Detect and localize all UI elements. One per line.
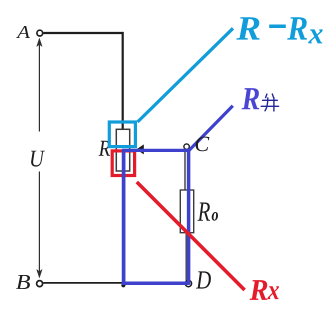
label U — [31, 151, 45, 167]
node A label — [16, 26, 30, 38]
cyan highlight box (upper part of R) — [109, 122, 135, 147]
label R - Rx (cyan) — [236, 17, 259, 39]
red highlight box (lower part of R) — [112, 151, 134, 176]
node C label — [196, 137, 210, 152]
black wire C to R0 — [184, 148, 186, 190]
terminal A circle — [37, 30, 43, 36]
wire from B to junction — [43, 282, 122, 284]
node B label — [16, 275, 30, 289]
blue wire: bottom horizontal to D — [122, 281, 189, 285]
cyan diagonal pointer to R-Rx label — [138, 28, 234, 122]
并 character drawn as strokes — [261, 94, 278, 111]
label Rx (red) — [250, 280, 268, 300]
blue wire: wiper junction to C (horizontal) — [122, 149, 189, 152]
wiper arrowhead (black, under blue wire) — [136, 144, 143, 154]
black wire R0 to D — [185, 233, 187, 281]
wire from terminal A to top-right corner — [43, 32, 122, 34]
red diagonal pointer to Rx label — [137, 182, 245, 290]
blue wire: C down to D (vertical) — [187, 149, 191, 285]
node D label — [196, 271, 211, 288]
resistor R0 body — [180, 190, 193, 233]
label R — [99, 141, 111, 156]
terminal B circle — [37, 281, 43, 287]
blue diagonal pointer from C to R并 label — [189, 106, 233, 151]
label R并 (blue) — [242, 88, 260, 109]
node D circle — [185, 280, 191, 286]
wire from top corner down to rheostat R — [122, 32, 124, 129]
label R0 — [198, 203, 211, 221]
junction dot at B wire / blue wire — [121, 283, 125, 287]
rheostat R body — [116, 129, 129, 171]
blue wire: down from wiper junction through lower R to bottom — [122, 150, 126, 283]
voltage arrow U (double-headed, gap at label) — [37, 38, 42, 277]
node C circle — [184, 144, 189, 149]
